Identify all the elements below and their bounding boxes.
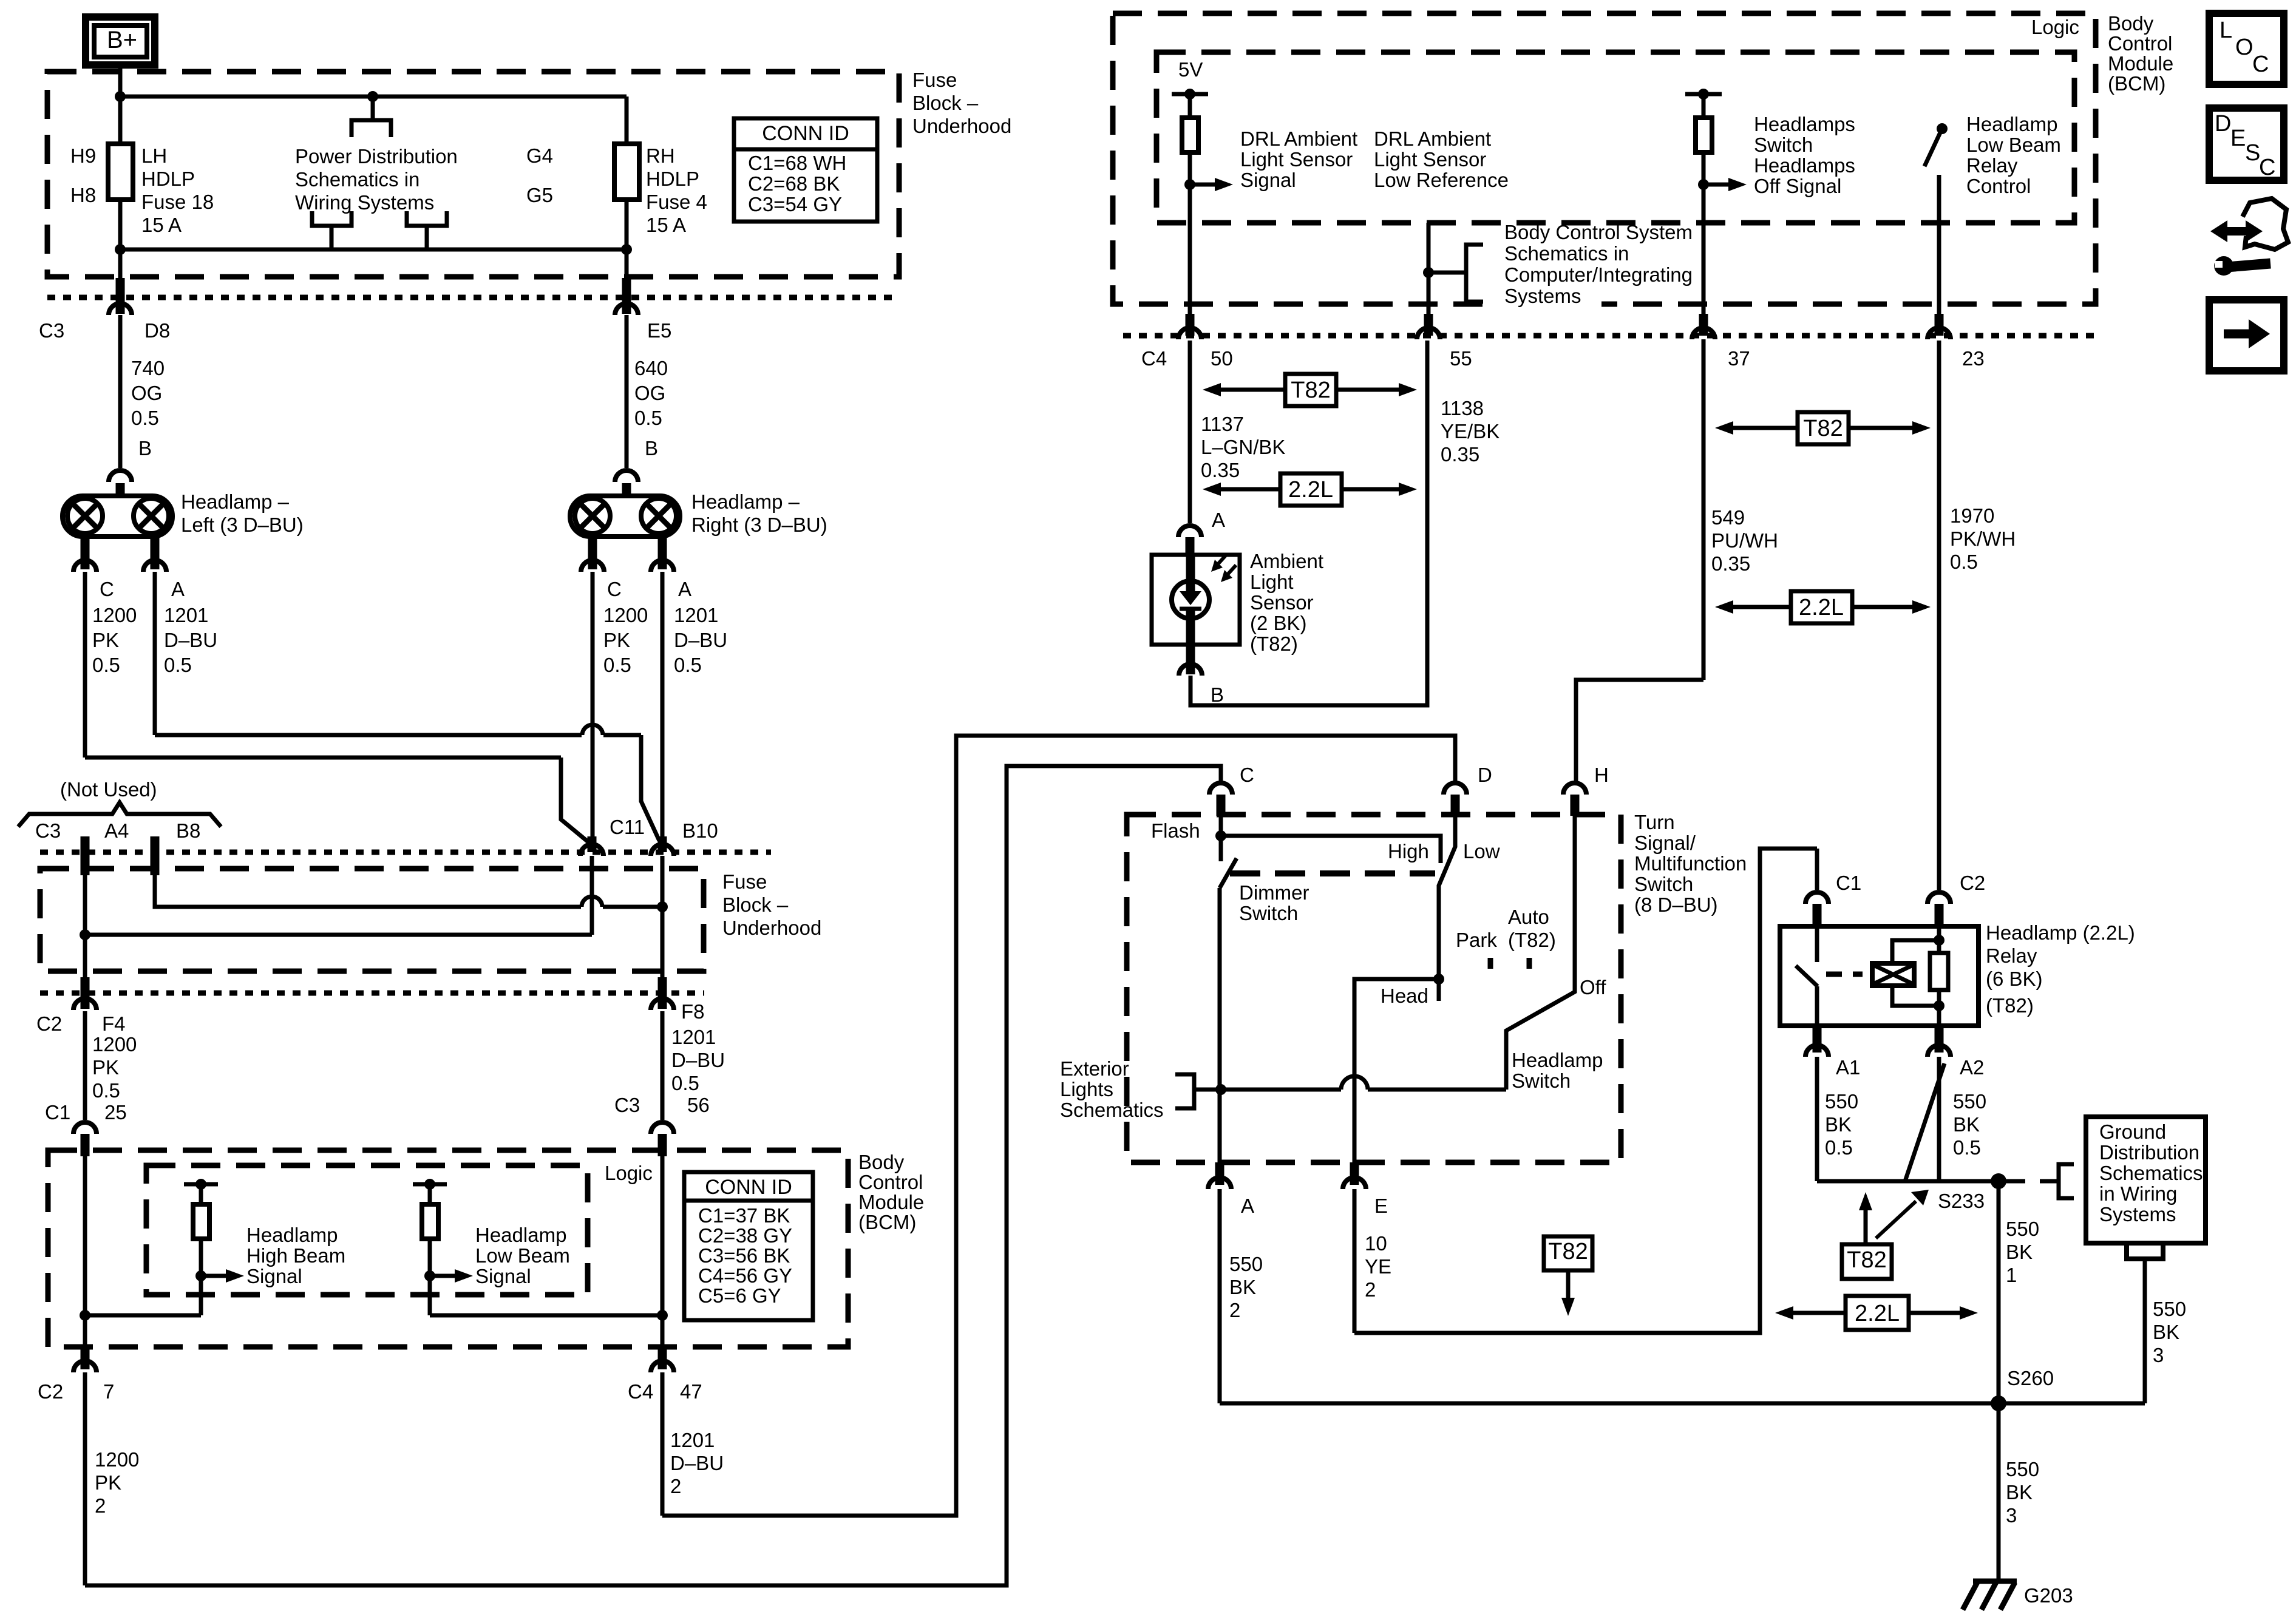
svg-text:Body: Body bbox=[2108, 12, 2154, 35]
svg-text:550: 550 bbox=[2006, 1218, 2039, 1240]
svg-text:Control: Control bbox=[858, 1171, 923, 1193]
right headlamp bbox=[570, 496, 680, 537]
connector C1 relay bbox=[1805, 849, 1861, 926]
svg-text:D–BU: D–BU bbox=[164, 629, 217, 651]
wire 1970 PK/WH bbox=[1939, 341, 2016, 890]
BCM lower label bbox=[858, 1151, 924, 1233]
svg-text:YE: YE bbox=[1365, 1255, 1391, 1278]
svg-text:Light Sensor: Light Sensor bbox=[1240, 148, 1353, 171]
svg-text:Signal: Signal bbox=[475, 1265, 531, 1287]
headlamps off label bbox=[1754, 113, 1855, 197]
turn signal switch label bbox=[1634, 811, 1747, 916]
connector E switch bbox=[1343, 1162, 1388, 1217]
svg-text:C2=68 BK: C2=68 BK bbox=[748, 172, 840, 195]
svg-text:E: E bbox=[1374, 1195, 1388, 1217]
BCM upper logic box dashed bbox=[1156, 52, 2074, 223]
svg-text:Low Reference: Low Reference bbox=[1374, 169, 1509, 191]
exterior lights bracket bbox=[1175, 1074, 1194, 1108]
connector B10 bbox=[651, 819, 718, 856]
connector C1-25 bbox=[45, 1101, 127, 1156]
svg-text:Fuse 18: Fuse 18 bbox=[141, 191, 214, 213]
svg-text:Schematics in: Schematics in bbox=[1504, 242, 1629, 265]
svg-text:Signal: Signal bbox=[1240, 169, 1296, 191]
svg-text:C5=6 GY: C5=6 GY bbox=[698, 1284, 781, 1307]
svg-text:RH: RH bbox=[646, 144, 675, 167]
svg-text:Low Beam: Low Beam bbox=[1966, 134, 2061, 156]
svg-text:1200: 1200 bbox=[603, 604, 648, 626]
svg-text:CONN ID: CONN ID bbox=[705, 1176, 792, 1199]
T82 ref box switch bbox=[1544, 1236, 1592, 1316]
svg-text:(2 BK): (2 BK) bbox=[1250, 612, 1307, 634]
svg-text:(8 D–BU): (8 D–BU) bbox=[1634, 893, 1718, 916]
ground distribution box bbox=[2086, 1117, 2206, 1243]
fuse F4 RH HDLP bbox=[614, 97, 639, 249]
svg-text:0.5: 0.5 bbox=[671, 1072, 699, 1094]
svg-text:56: 56 bbox=[687, 1094, 710, 1116]
svg-text:H: H bbox=[1594, 764, 1609, 786]
svg-text:C3=54 GY: C3=54 GY bbox=[748, 193, 842, 215]
svg-text:2.2L: 2.2L bbox=[1799, 595, 1844, 620]
svg-text:Left (3 D–BU): Left (3 D–BU) bbox=[181, 514, 304, 536]
svg-text:YE/BK: YE/BK bbox=[1441, 420, 1500, 442]
svg-text:Switch: Switch bbox=[1512, 1070, 1571, 1092]
svg-text:1137: 1137 bbox=[1201, 413, 1244, 435]
wire 1200 PK 2 bbox=[85, 1372, 139, 1585]
splice S233 bbox=[1938, 1173, 2006, 1212]
svg-text:Body: Body bbox=[858, 1151, 905, 1173]
svg-text:in Wiring: in Wiring bbox=[2099, 1182, 2177, 1205]
BCM upper label bbox=[2108, 12, 2173, 95]
svg-text:C4=56 GY: C4=56 GY bbox=[698, 1264, 792, 1287]
5V supply bbox=[1172, 58, 1208, 336]
svg-text:T82: T82 bbox=[1291, 378, 1330, 403]
svg-text:Switch: Switch bbox=[1754, 134, 1813, 156]
left headlamp pin C bbox=[73, 537, 114, 600]
svg-text:Signal/: Signal/ bbox=[1634, 832, 1696, 854]
svg-text:0.5: 0.5 bbox=[92, 1079, 120, 1102]
svg-text:OG: OG bbox=[634, 382, 665, 404]
svg-text:Low: Low bbox=[1463, 840, 1500, 863]
svg-text:BK: BK bbox=[1229, 1276, 1256, 1298]
svg-text:G4: G4 bbox=[526, 144, 553, 167]
svg-text:Head: Head bbox=[1381, 985, 1428, 1007]
wire 550 BK 2 bbox=[1220, 1189, 1263, 1403]
svg-text:C3: C3 bbox=[614, 1094, 640, 1116]
svg-text:Headlamps: Headlamps bbox=[1754, 154, 1855, 177]
wire 740 OG bbox=[120, 315, 165, 468]
wire 1137 labels bbox=[1201, 413, 1285, 481]
svg-text:550: 550 bbox=[1825, 1090, 1858, 1113]
svg-text:550: 550 bbox=[1953, 1090, 1986, 1113]
svg-text:Logic: Logic bbox=[605, 1162, 653, 1184]
svg-text:Relay: Relay bbox=[1986, 944, 2037, 967]
fuse block 2 label bbox=[722, 870, 821, 939]
wire sensor B to 1138 bbox=[1190, 341, 1427, 705]
svg-text:Relay: Relay bbox=[1966, 154, 2018, 177]
connector C2-7 bbox=[38, 1347, 114, 1403]
wire 1201 D-BU left bbox=[155, 572, 217, 735]
connector B right headlamp bbox=[615, 437, 658, 498]
svg-text:Low Beam: Low Beam bbox=[475, 1244, 570, 1267]
svg-text:550: 550 bbox=[1229, 1253, 1263, 1275]
svg-text:F8: F8 bbox=[681, 1000, 705, 1023]
svg-text:1200: 1200 bbox=[92, 1033, 137, 1056]
svg-text:Switch: Switch bbox=[1239, 902, 1298, 924]
svg-text:OG: OG bbox=[131, 382, 162, 404]
svg-text:DRL Ambient: DRL Ambient bbox=[1240, 127, 1357, 150]
svg-text:37: 37 bbox=[1728, 347, 1750, 370]
wire B8 to F8 net bbox=[155, 875, 668, 912]
BCM upper box dashed bbox=[1113, 13, 2096, 304]
splice wire A1-A2 bbox=[1817, 1063, 1999, 1181]
off contact bbox=[1506, 816, 1606, 1090]
svg-text:Light: Light bbox=[1250, 571, 1294, 593]
power distribution lower bracket 2 bbox=[407, 211, 447, 249]
svg-text:L: L bbox=[2220, 18, 2232, 43]
svg-text:C3=56 BK: C3=56 BK bbox=[698, 1244, 790, 1267]
svg-text:C2: C2 bbox=[36, 1012, 62, 1035]
svg-text:2.2L: 2.2L bbox=[1288, 477, 1333, 503]
headlamp switch label bbox=[1512, 1049, 1603, 1092]
svg-text:BK: BK bbox=[2006, 1481, 2033, 1503]
connector C4-50 bbox=[1141, 314, 1233, 370]
svg-text:Headlamp: Headlamp bbox=[1966, 113, 2057, 135]
svg-text:Headlamp –: Headlamp – bbox=[691, 490, 800, 513]
svg-text:BK: BK bbox=[1953, 1113, 1980, 1136]
BCM lower logic box dashed bbox=[146, 1165, 588, 1295]
wire low reference bbox=[1427, 223, 1431, 336]
connector C2-F4 bbox=[36, 998, 126, 1035]
svg-text:S260: S260 bbox=[2007, 1367, 2054, 1389]
svg-text:A: A bbox=[678, 578, 691, 600]
svg-text:C: C bbox=[2252, 52, 2269, 77]
svg-text:7: 7 bbox=[103, 1380, 114, 1403]
svg-text:B: B bbox=[645, 437, 658, 459]
svg-text:5V: 5V bbox=[1178, 58, 1203, 81]
power distribution tap bracket bbox=[352, 97, 391, 137]
connector B ambient sensor bbox=[1179, 645, 1224, 706]
svg-text:Switch: Switch bbox=[1634, 873, 1693, 895]
high label bbox=[1388, 840, 1429, 863]
connector B left headlamp bbox=[109, 437, 152, 498]
head wire to E bbox=[1354, 979, 1439, 1162]
high beam signal arrow bbox=[195, 1269, 244, 1283]
svg-text:Auto: Auto bbox=[1508, 906, 1549, 928]
wire 7 to dimmer C bbox=[85, 766, 1221, 1585]
right headlamp pin C bbox=[581, 537, 622, 600]
svg-text:Logic: Logic bbox=[2031, 16, 2079, 38]
wire B10-F8 vertical bbox=[661, 856, 665, 1009]
svg-text:Headlamp (2.2L): Headlamp (2.2L) bbox=[1986, 921, 2135, 944]
svg-text:A2: A2 bbox=[1960, 1056, 1984, 1079]
icon wrench pointer bbox=[2210, 198, 2288, 276]
svg-text:A: A bbox=[1212, 509, 1225, 531]
svg-text:Off: Off bbox=[1580, 976, 1606, 998]
svg-text:Power Distribution: Power Distribution bbox=[295, 145, 458, 168]
connector dotted line BCM upper bbox=[1123, 333, 2101, 339]
not used brace bbox=[18, 778, 221, 827]
svg-text:Schematics: Schematics bbox=[1060, 1099, 1164, 1121]
svg-text:(BCM): (BCM) bbox=[2108, 72, 2165, 95]
svg-text:1201: 1201 bbox=[670, 1429, 715, 1451]
connector A2 relay bbox=[1927, 1026, 1984, 1079]
wire to G203 bbox=[1999, 1403, 2039, 1581]
svg-text:D: D bbox=[1478, 764, 1492, 786]
headlamps off pullup bbox=[1685, 89, 1722, 336]
wire 37 to H bbox=[1576, 680, 1703, 784]
left headlamp pin A bbox=[143, 537, 185, 600]
bus bottom bbox=[115, 244, 632, 255]
connector A ambient sensor bbox=[1178, 526, 1201, 556]
park auto labels bbox=[1456, 906, 1556, 969]
svg-text:1201: 1201 bbox=[164, 604, 208, 626]
connector 23 bbox=[1927, 314, 1985, 370]
svg-text:Park: Park bbox=[1456, 929, 1497, 951]
svg-text:0.5: 0.5 bbox=[1953, 1136, 1981, 1159]
svg-text:740: 740 bbox=[131, 357, 165, 379]
svg-text:2: 2 bbox=[670, 1475, 681, 1497]
logic label upper bbox=[2031, 16, 2079, 38]
svg-text:H8: H8 bbox=[70, 184, 96, 206]
svg-text:0.5: 0.5 bbox=[164, 654, 192, 676]
svg-text:T82: T82 bbox=[1847, 1247, 1886, 1273]
left headlamp bbox=[63, 496, 172, 537]
headlamp switch common wire bbox=[1194, 1076, 1506, 1095]
svg-text:C1: C1 bbox=[45, 1101, 70, 1124]
svg-text:D–BU: D–BU bbox=[674, 629, 727, 651]
svg-text:LH: LH bbox=[141, 144, 167, 167]
svg-text:S: S bbox=[2245, 140, 2260, 166]
ground box pigtail bbox=[2127, 1243, 2186, 1403]
svg-text:B: B bbox=[1211, 683, 1224, 706]
connector C4-47 bbox=[628, 1347, 702, 1403]
svg-text:O: O bbox=[2235, 35, 2254, 60]
svg-text:0.5: 0.5 bbox=[92, 654, 120, 676]
T82 arrow 2 bbox=[1715, 412, 1931, 444]
wire 549 PU/WH bbox=[1703, 339, 1778, 680]
svg-text:Headlamp: Headlamp bbox=[1512, 1049, 1603, 1071]
svg-text:S233: S233 bbox=[1938, 1190, 1985, 1212]
svg-text:Control: Control bbox=[2108, 32, 2172, 55]
connector C3-D8 bbox=[39, 249, 170, 342]
svg-text:Schematics in: Schematics in bbox=[295, 168, 419, 191]
svg-text:Schematics: Schematics bbox=[2099, 1162, 2203, 1184]
svg-text:Computer/Integrating: Computer/Integrating bbox=[1504, 263, 1693, 286]
fuse block underhood box dashed bbox=[47, 72, 899, 277]
svg-text:B: B bbox=[138, 437, 152, 459]
svg-text:0.35: 0.35 bbox=[1441, 443, 1479, 466]
svg-text:550: 550 bbox=[2153, 1298, 2186, 1320]
connector C2 relay bbox=[1927, 872, 1985, 926]
BCM lower box dashed bbox=[48, 1150, 848, 1347]
T82 ref box relay bbox=[1842, 1190, 1929, 1279]
svg-text:Ambient: Ambient bbox=[1250, 550, 1323, 572]
flash contact bbox=[1151, 816, 1441, 863]
svg-text:B+: B+ bbox=[107, 27, 137, 53]
svg-text:0.35: 0.35 bbox=[1201, 459, 1240, 481]
svg-text:0.5: 0.5 bbox=[131, 407, 159, 429]
svg-text:549: 549 bbox=[1711, 506, 1745, 529]
connector row dotted line fuse block 1 bbox=[47, 295, 899, 300]
svg-text:C4: C4 bbox=[628, 1380, 653, 1403]
fuse block 2 box dashed bbox=[40, 869, 704, 971]
wire 56 down and junction bbox=[430, 1135, 668, 1347]
drl signal arrow bbox=[1184, 178, 1233, 191]
wire B+ to bus bbox=[118, 65, 123, 97]
dimmer common wire bbox=[1218, 888, 1222, 1162]
svg-text:T82: T82 bbox=[1548, 1239, 1588, 1264]
low label bbox=[1463, 840, 1500, 863]
svg-text:55: 55 bbox=[1450, 347, 1472, 370]
svg-text:C2=38 GY: C2=38 GY bbox=[698, 1224, 792, 1247]
svg-text:C: C bbox=[607, 578, 622, 600]
svg-text:2: 2 bbox=[1365, 1278, 1376, 1301]
svg-text:Fuse: Fuse bbox=[722, 870, 767, 893]
svg-text:1201: 1201 bbox=[671, 1026, 716, 1048]
svg-text:F4: F4 bbox=[102, 1012, 126, 1035]
stub C3 not-used bbox=[81, 836, 90, 875]
wire 25 down and junction bbox=[80, 1135, 201, 1347]
wire C2-F4 vertical bbox=[83, 875, 87, 1009]
connector D dimmer bbox=[1444, 764, 1492, 816]
fuse F4 labels bbox=[526, 144, 707, 236]
dimmer switch blade bbox=[1220, 858, 1237, 888]
svg-text:High Beam: High Beam bbox=[246, 1244, 345, 1267]
svg-text:(BCM): (BCM) bbox=[858, 1211, 916, 1233]
T82 arrow 1 bbox=[1203, 374, 1417, 406]
svg-text:Module: Module bbox=[858, 1191, 924, 1213]
low contact wire bbox=[1433, 816, 1455, 985]
svg-text:Headlamp: Headlamp bbox=[246, 1224, 338, 1246]
wire 640 OG bbox=[627, 315, 668, 468]
svg-text:Dimmer: Dimmer bbox=[1239, 881, 1309, 904]
svg-text:HDLP: HDLP bbox=[646, 168, 699, 190]
exterior lights label bbox=[1060, 1057, 1164, 1121]
wire 550 BK 1 bbox=[1999, 1181, 2039, 1403]
low beam pullup bbox=[413, 1179, 447, 1315]
svg-text:(6 BK): (6 BK) bbox=[1986, 968, 2043, 990]
svg-text:C3: C3 bbox=[35, 819, 61, 842]
svg-text:C: C bbox=[1240, 764, 1254, 786]
svg-text:E5: E5 bbox=[647, 319, 671, 342]
svg-text:1970: 1970 bbox=[1950, 504, 1994, 527]
wire 1138 labels bbox=[1441, 397, 1500, 466]
relay link dashes bbox=[1826, 972, 1863, 977]
svg-text:Fuse: Fuse bbox=[912, 69, 957, 91]
svg-text:Control: Control bbox=[1966, 175, 2031, 197]
svg-text:Headlamp: Headlamp bbox=[475, 1224, 566, 1246]
dimmer switch label bbox=[1239, 881, 1309, 924]
pin labels C3 A4 B8 bbox=[35, 819, 200, 842]
svg-text:B8: B8 bbox=[176, 819, 200, 842]
svg-text:BK: BK bbox=[2153, 1321, 2179, 1343]
power distribution label bbox=[295, 145, 458, 214]
svg-text:Flash: Flash bbox=[1151, 819, 1200, 842]
svg-text:D8: D8 bbox=[144, 319, 170, 342]
ambient light sensor bbox=[1152, 555, 1240, 645]
svg-text:3: 3 bbox=[2006, 1504, 2017, 1527]
svg-text:47: 47 bbox=[680, 1380, 702, 1403]
right headlamp label bbox=[691, 490, 827, 536]
connector C11 bbox=[580, 816, 645, 856]
svg-text:1201: 1201 bbox=[674, 604, 718, 626]
wire 1200 PK right bbox=[593, 572, 648, 844]
svg-text:25: 25 bbox=[104, 1101, 127, 1124]
fuse block underhood label bbox=[912, 69, 1011, 137]
svg-text:A1: A1 bbox=[1836, 1056, 1860, 1079]
low beam signal arrow bbox=[424, 1269, 473, 1283]
battery feed B+ symbol bbox=[86, 17, 155, 65]
svg-text:D–BU: D–BU bbox=[671, 1049, 725, 1071]
svg-text:A: A bbox=[1241, 1195, 1254, 1217]
svg-text:2.2L: 2.2L bbox=[1855, 1301, 1900, 1326]
svg-text:0.5: 0.5 bbox=[1950, 551, 1978, 573]
svg-text:Multifunction: Multifunction bbox=[1634, 852, 1747, 875]
low beam relay control switch bbox=[1924, 123, 1948, 336]
svg-text:B10: B10 bbox=[682, 819, 718, 842]
svg-text:3: 3 bbox=[2153, 1344, 2164, 1366]
connector dotted line upper fuse block 2 bbox=[40, 850, 771, 855]
headlamp relay label bbox=[1986, 921, 2135, 1017]
svg-text:Exterior: Exterior bbox=[1060, 1057, 1129, 1080]
headlamp relay box bbox=[1780, 926, 1978, 1026]
wire 47 to dimmer D bbox=[662, 736, 1455, 1516]
connector C3-56 bbox=[614, 1094, 710, 1156]
svg-text:0.5: 0.5 bbox=[1825, 1136, 1853, 1159]
relay resistor bbox=[1930, 926, 1948, 1026]
svg-text:1200: 1200 bbox=[95, 1448, 139, 1471]
svg-text:0.5: 0.5 bbox=[603, 654, 631, 676]
svg-text:550: 550 bbox=[2006, 1458, 2039, 1480]
svg-text:2: 2 bbox=[1229, 1299, 1240, 1321]
svg-text:Headlamp –: Headlamp – bbox=[181, 490, 290, 513]
svg-text:Block –: Block – bbox=[722, 893, 789, 916]
connector H dimmer bbox=[1563, 764, 1609, 816]
svg-text:Fuse 4: Fuse 4 bbox=[646, 191, 707, 213]
svg-text:C: C bbox=[100, 578, 114, 600]
wire 50 down bbox=[1190, 341, 1225, 531]
conn id table lower bbox=[684, 1172, 813, 1320]
ground distribution ref bbox=[1999, 1164, 2074, 1198]
wire left lamp C to C11 bbox=[85, 758, 589, 842]
svg-text:1200: 1200 bbox=[92, 604, 137, 626]
wire 1201 D-BU 0.5 to BCM bbox=[662, 1011, 725, 1120]
body control system label bbox=[1498, 221, 1693, 316]
wire 550 BK 0.5 left bbox=[1817, 1057, 1858, 1181]
svg-text:A: A bbox=[171, 578, 185, 600]
svg-text:Distribution: Distribution bbox=[2099, 1141, 2199, 1164]
svg-text:C2: C2 bbox=[38, 1380, 63, 1403]
relay switch contact bbox=[1796, 926, 1818, 1026]
svg-text:High: High bbox=[1388, 840, 1429, 863]
svg-text:C4: C4 bbox=[1141, 347, 1167, 370]
svg-text:1138: 1138 bbox=[1441, 397, 1484, 419]
2.2L arrow 3 bbox=[1775, 1296, 1978, 1330]
svg-text:10: 10 bbox=[1365, 1232, 1387, 1255]
2.2L arrow 2 bbox=[1715, 591, 1931, 623]
svg-text:BK: BK bbox=[1825, 1113, 1852, 1136]
svg-text:DRL Ambient: DRL Ambient bbox=[1374, 127, 1491, 150]
svg-text:Lights: Lights bbox=[1060, 1078, 1113, 1100]
svg-text:Underhood: Underhood bbox=[912, 115, 1011, 137]
fuse F18 labels bbox=[70, 144, 214, 236]
svg-text:A4: A4 bbox=[104, 819, 129, 842]
svg-text:G203: G203 bbox=[2024, 1584, 2073, 1607]
low beam relay control label bbox=[1966, 113, 2061, 197]
svg-text:HDLP: HDLP bbox=[141, 168, 195, 190]
splice S260 bbox=[1991, 1367, 2054, 1411]
connector 37 bbox=[1692, 314, 1750, 370]
